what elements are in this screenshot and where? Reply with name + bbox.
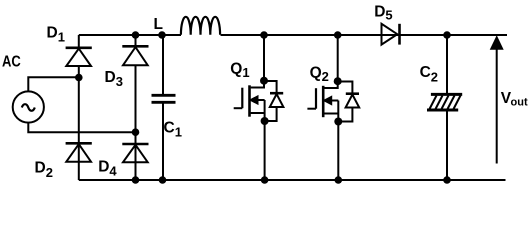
junction Q2 drain top rail [334,31,342,39]
svg-text:D1: D1 [47,25,65,45]
svg-text:Vout: Vout [501,90,528,109]
node L junction [158,31,166,39]
wire AC top lead [28,77,79,91]
transistor Q1 [234,35,265,180]
junction Q2 drain-diode [334,77,342,85]
junction Q2 source bottom rail [335,176,343,184]
wire right bridge leg [135,35,137,180]
junction Q1 source-diode [261,117,269,125]
junction C2 top rail [443,31,451,39]
diode D4 [122,144,148,162]
junction D4 bottom rail [132,176,140,184]
diode D3 [122,46,148,65]
junction Q1 source bottom rail [261,176,269,184]
diode Q1 body [264,81,283,121]
diode D2 [66,143,92,161]
junction C1 bottom rail [159,176,167,184]
inductor L1 [181,17,220,35]
capacitor C1 [152,35,176,180]
diode Q2 body [338,82,359,122]
Vout arrow [491,38,502,164]
junction Q1 drain-diode [260,77,268,85]
svg-text:D2: D2 [35,159,53,180]
junction AC positive D1-D2 [75,74,83,82]
svg-text:C1: C1 [164,119,182,139]
svg-text:D3: D3 [105,69,123,89]
AC source [13,91,44,122]
svg-text:AC: AC [2,54,21,71]
capacitor C2 [427,35,462,180]
junction C2 bottom rail [443,176,451,184]
junction Q1 drain top rail [260,31,268,39]
diode D1 [66,48,92,66]
svg-text:C2: C2 [420,64,438,85]
junction Q2 source-diode [334,118,342,126]
svg-text:D4: D4 [98,159,117,179]
wire bottom rail [79,179,506,181]
junction AC return D3-D4 [132,128,140,136]
svg-text:D5: D5 [374,3,392,22]
diode D5 [382,24,400,45]
svg-text:Q1: Q1 [230,61,249,81]
svg-text:Q2: Q2 [310,65,329,85]
wire top rail [79,34,507,36]
junction D3 top rail [132,31,140,39]
wire AC bottom lead [28,123,135,133]
transistor Q2 [307,35,338,180]
wire left bridge leg [78,35,80,180]
svg-text:L: L [154,16,163,33]
